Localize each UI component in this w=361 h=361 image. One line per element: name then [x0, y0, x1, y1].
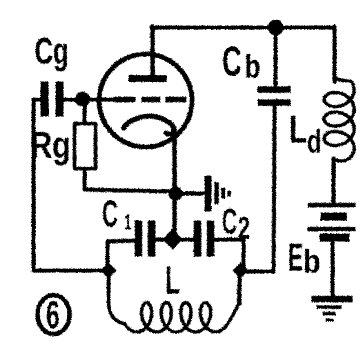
- wire: Cg left lead: [33, 97, 41, 101]
- wire: L coil left lead: [106, 270, 110, 301]
- battery Eb plates: [307, 202, 355, 207]
- wire: left rail: [31, 99, 35, 270]
- wire: Rg bottom lead and wire to cathode junction: [84, 168, 175, 191]
- node: bottom-right junction: [232, 262, 248, 278]
- capacitor C2 plates: [193, 220, 201, 256]
- ground (bottom right): [311, 295, 352, 302]
- wire: plate lead from top rail into tube: [150, 26, 155, 76]
- wire: Ld bottom lead to battery: [331, 158, 335, 203]
- svg-text:b: b: [244, 47, 260, 84]
- wire: C1 left wire and corner down to junction: [107, 240, 134, 268]
- wire: bottom-left horizontal: [33, 268, 107, 272]
- node: cathode junction: [168, 186, 182, 200]
- figure number circle 6: [37, 295, 69, 334]
- wire: Rg top lead: [82, 104, 86, 123]
- node: C1-C2 midpoint junction (diamond): [162, 228, 182, 249]
- capacitor C1 plates: [134, 220, 142, 256]
- svg-text:Cg: Cg: [34, 30, 68, 71]
- wire: battery bottom lead to ground: [330, 241, 334, 296]
- tube V1 (triode) envelope: [99, 54, 192, 147]
- svg-text:C: C: [102, 193, 118, 235]
- tube V1 grid (dashed): [113, 96, 186, 102]
- wire: top rail from plate lead to right rail: [151, 25, 334, 29]
- node: grid junction (Cg/Rg/grid): [75, 91, 90, 106]
- wire: Cb bottom lead down: [273, 104, 274, 270]
- svg-text:E: E: [288, 236, 303, 279]
- chassis ground at cathode (horizontal, pointing right): [204, 175, 211, 211]
- svg-text:L: L: [165, 259, 180, 302]
- inductor Ld (right coil): [324, 26, 354, 203]
- wire: grid lead into tube: [84, 97, 114, 101]
- inductor L (bottom coil): [108, 270, 239, 331]
- svg-text:C: C: [222, 37, 242, 84]
- svg-text:C: C: [222, 200, 237, 241]
- svg-text:1: 1: [124, 209, 132, 234]
- wire: L coil right lead: [237, 270, 241, 303]
- wire: Cb top lead: [273, 27, 277, 87]
- wire: Cg right lead to grid junction: [62, 97, 80, 101]
- capacitor Cg plates: [40, 81, 48, 116]
- node: junction on top rail (plate/Cb/Ld): [267, 19, 283, 35]
- svg-text:2: 2: [238, 210, 250, 245]
- svg-text:6: 6: [46, 294, 60, 337]
- capacitor Cb plates: [257, 86, 290, 93]
- wire: right rail down to Ld: [332, 26, 336, 81]
- wire: C2 right wire with corner down: [213, 239, 243, 268]
- tube V1 cathode arc: [123, 116, 174, 134]
- svg-text:b: b: [303, 242, 321, 279]
- wire: between C1 and C2: [154, 237, 195, 241]
- wire: horizontal from Cb lead to right bottom junction: [241, 269, 273, 273]
- node: bottom-left junction: [100, 262, 116, 278]
- tube V1 plate (anode) bar: [128, 75, 166, 82]
- svg-text:Rg: Rg: [30, 124, 70, 165]
- wire: cathode lead down to C1-C2 midpoint: [172, 131, 177, 238]
- svg-text:L: L: [289, 108, 307, 151]
- svg-text:d: d: [307, 122, 322, 159]
- resistor Rg body: [74, 123, 95, 168]
- wire: cathode junction to chassis ground: [175, 191, 203, 195]
